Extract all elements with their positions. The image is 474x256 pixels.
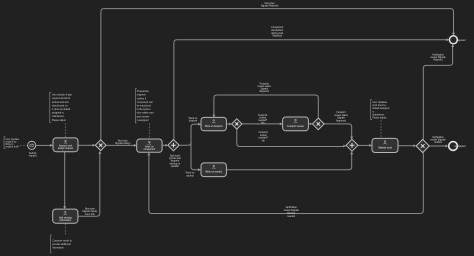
svg-text:more info: more info xyxy=(85,213,95,216)
svg-text:footprint: footprint xyxy=(189,120,198,123)
svg-text:Verification: Verification xyxy=(432,54,444,57)
svg-text:Signals Assign: Signals Assign xyxy=(115,142,131,145)
label footprint review needed No xyxy=(259,131,269,142)
wire T6 to G6 xyxy=(398,144,416,147)
label below G2 parallel split xyxy=(169,155,182,168)
svg-text:is assigned: is assigned xyxy=(137,120,149,122)
svg-text:in the system: in the system xyxy=(137,108,151,111)
svg-text:Footprint review: Footprint review xyxy=(287,125,304,128)
svg-text:Rejected: Rejected xyxy=(433,59,443,62)
svg-text:verifies if: verifies if xyxy=(137,97,147,100)
label needs more info loop xyxy=(82,207,98,215)
wire T7 right up to G1 bottom xyxy=(78,151,102,216)
svg-text:during work: during work xyxy=(271,32,284,35)
wire G2 to trunk to T3 xyxy=(179,123,201,146)
svg-text:footprint: footprint xyxy=(171,160,180,163)
svg-text:Please adjust: Please adjust xyxy=(372,117,386,120)
task T3 Work on footprint xyxy=(201,117,226,130)
svg-text:Rejected: Rejected xyxy=(456,39,466,42)
gateway G2 parallel split xyxy=(168,140,179,151)
svg-text:Work on: Work on xyxy=(145,145,154,148)
end event Rejected xyxy=(449,36,466,44)
svg-text:work done by: work done by xyxy=(372,104,387,107)
svg-text:Work on: Work on xyxy=(186,172,195,175)
wire G1 to T2 xyxy=(106,144,137,147)
svg-text:Footprint: Footprint xyxy=(336,111,346,114)
annotation A5 below T7 xyxy=(51,235,73,253)
gateway G3 footprint review needed xyxy=(232,119,242,129)
svg-text:Add missing: Add missing xyxy=(59,216,72,219)
svg-text:User decides if part: User decides if part xyxy=(52,94,72,97)
label Work on footprint branch xyxy=(189,117,198,123)
wire T5 to G5 xyxy=(308,123,312,126)
svg-text:Footprint: Footprint xyxy=(260,82,270,85)
svg-text:provide additional: provide additional xyxy=(52,243,71,246)
wire G6 up zigzag to rejected event bottom xyxy=(423,44,454,139)
task T1 Approve and assign request xyxy=(53,138,78,152)
svg-text:review status: review status xyxy=(257,85,271,88)
gateway G6 verification outcome xyxy=(416,139,429,152)
svg-text:Next step: Next step xyxy=(85,207,96,210)
svg-text:engineer: engineer xyxy=(137,94,146,97)
svg-text:Footprint: Footprint xyxy=(259,131,269,134)
svg-text:Work on symbol: Work on symbol xyxy=(205,171,222,174)
task T4 Work on symbol xyxy=(201,163,226,177)
svg-text:information: information xyxy=(60,219,72,222)
svg-text:Verified: Verified xyxy=(434,141,442,144)
wire G3 to T5, Yes branch xyxy=(242,122,283,125)
wire T3 to G3 xyxy=(226,123,231,126)
svg-text:review Signals: review Signals xyxy=(284,209,300,212)
label footprint review approved xyxy=(334,111,348,123)
wire G5 up and left, footprint rework loop into T3 top xyxy=(212,95,318,118)
svg-text:Signals: Signals xyxy=(337,118,345,120)
label Work on symbol branch xyxy=(186,172,195,178)
label on G2 rejected line xyxy=(271,26,284,37)
label verification verified xyxy=(430,136,446,144)
start event Submit request xyxy=(28,141,37,157)
svg-text:Footprint: Footprint xyxy=(258,114,268,117)
wire G6 to completed event xyxy=(429,145,448,148)
wire T2 to G2 xyxy=(162,144,168,147)
annotation A4 above T6 xyxy=(371,100,390,120)
svg-text:Rejected: Rejected xyxy=(273,35,283,38)
svg-text:Work on: Work on xyxy=(189,117,198,120)
task T6 Validate work xyxy=(372,138,398,152)
svg-text:component can: component can xyxy=(137,101,154,104)
label footprint review needed Yes xyxy=(258,114,268,125)
wire T4 to G4 bottom xyxy=(226,151,353,169)
svg-text:worked and who: worked and who xyxy=(52,101,70,104)
wire G2 top long line to rejected event left xyxy=(174,38,449,139)
svg-text:review Signals: review Signals xyxy=(430,56,446,59)
svg-text:default assigned: default assigned xyxy=(372,107,390,110)
wire T1 bottom down to T7 top xyxy=(63,152,66,209)
end event Completed xyxy=(449,142,467,151)
svg-text:Customer needs to: Customer needs to xyxy=(52,240,72,243)
wire T1 to G1 xyxy=(78,144,95,147)
svg-text:review status: review status xyxy=(334,114,348,117)
wire G5 right then down to G4 top, approved branch xyxy=(324,124,353,139)
svg-text:request should be: request should be xyxy=(52,97,71,100)
svg-text:Rework: Rework xyxy=(287,212,296,215)
svg-text:Rejected: Rejected xyxy=(260,90,270,93)
svg-text:Please adjust: Please adjust xyxy=(52,119,66,122)
svg-text:Submit: Submit xyxy=(29,152,37,155)
association annotation A1 to start event, dashed xyxy=(17,144,27,146)
task T2 Work on component xyxy=(137,139,162,152)
svg-text:assigned to: assigned to xyxy=(52,112,65,115)
svg-text:part number: part number xyxy=(137,115,150,118)
wire G3 bottom bypass to G4 left, No branch xyxy=(237,129,346,147)
annotation A3 above T2 xyxy=(135,89,154,123)
svg-text:component: component xyxy=(144,148,156,151)
svg-text:be introduced: be introduced xyxy=(137,105,152,108)
svg-text:Approved: Approved xyxy=(336,120,347,123)
label verification rework loop xyxy=(284,206,300,218)
annotation A1 user decides request xyxy=(4,137,20,149)
svg-text:Signals Needs: Signals Needs xyxy=(82,211,98,213)
svg-text:review Signals: review Signals xyxy=(430,139,446,142)
wire G6 bottom rework loop back to T2 bottom xyxy=(147,153,423,214)
svg-text:request: request xyxy=(29,155,37,158)
task T7 Add missing information xyxy=(53,209,78,223)
svg-text:needed?: needed? xyxy=(259,138,269,140)
wire trunk to T4 xyxy=(191,143,201,172)
association annotation A3 to T2 top, dashed xyxy=(149,124,151,139)
label on G1 to T2 edge xyxy=(115,139,131,145)
gateway G5 review outcome xyxy=(312,118,324,130)
association T7 bottom to annotation A5, dashed xyxy=(64,224,66,235)
svg-text:Prospective: Prospective xyxy=(137,90,150,93)
svg-text:who makes sure: who makes sure xyxy=(137,112,155,115)
svg-text:review: review xyxy=(260,134,267,137)
svg-text:Work on footprint: Work on footprint xyxy=(205,125,223,128)
svg-text:request form: request form xyxy=(6,146,19,149)
svg-text:parallel: parallel xyxy=(171,165,179,168)
svg-text:Verification: Verification xyxy=(286,206,298,209)
svg-text:Signals Rejected: Signals Rejected xyxy=(261,5,279,8)
svg-text:Component: Component xyxy=(271,26,283,29)
svg-text:information: information xyxy=(52,247,64,250)
association annotation A2 to T1 top, dashed xyxy=(64,123,66,137)
annotation A2 above T1 xyxy=(50,92,72,122)
svg-text:assign request: assign request xyxy=(58,147,73,150)
svg-text:maintainers.: maintainers. xyxy=(52,115,65,118)
wire G1 top long line across top to rejected event top xyxy=(101,9,455,140)
task T5 Footprint review xyxy=(283,117,309,131)
svg-text:maintainers.: maintainers. xyxy=(372,113,385,116)
svg-text:symbol: symbol xyxy=(186,175,194,177)
svg-text:should work on: should work on xyxy=(52,104,68,107)
svg-text:Next step: Next step xyxy=(118,139,129,142)
wire start to T1 xyxy=(36,144,53,147)
svg-text:User validates: User validates xyxy=(372,101,388,104)
association annotation A4 to T6 top, dashed xyxy=(380,120,382,137)
svg-text:Validate work: Validate work xyxy=(378,146,393,149)
gateway G1 exclusive xyxy=(95,140,106,151)
svg-text:Split work: Split work xyxy=(170,155,181,158)
svg-text:review: review xyxy=(259,117,266,120)
wire G4 to T6 xyxy=(358,144,372,147)
label on top rejected line from G1 xyxy=(261,2,279,8)
label footprint review rejected loop xyxy=(257,82,271,93)
svg-text:needed: needed xyxy=(287,216,295,218)
svg-text:it, done by default: it, done by default xyxy=(52,108,71,111)
svg-text:Next step: Next step xyxy=(265,2,276,5)
svg-text:introduction: introduction xyxy=(271,29,284,32)
label verification rejected zigzag xyxy=(430,54,446,62)
gateway G4 parallel join xyxy=(346,139,358,151)
svg-text:Verification: Verification xyxy=(432,136,444,139)
svg-text:Approve and: Approve and xyxy=(59,144,73,147)
svg-text:Completed: Completed xyxy=(454,145,466,148)
